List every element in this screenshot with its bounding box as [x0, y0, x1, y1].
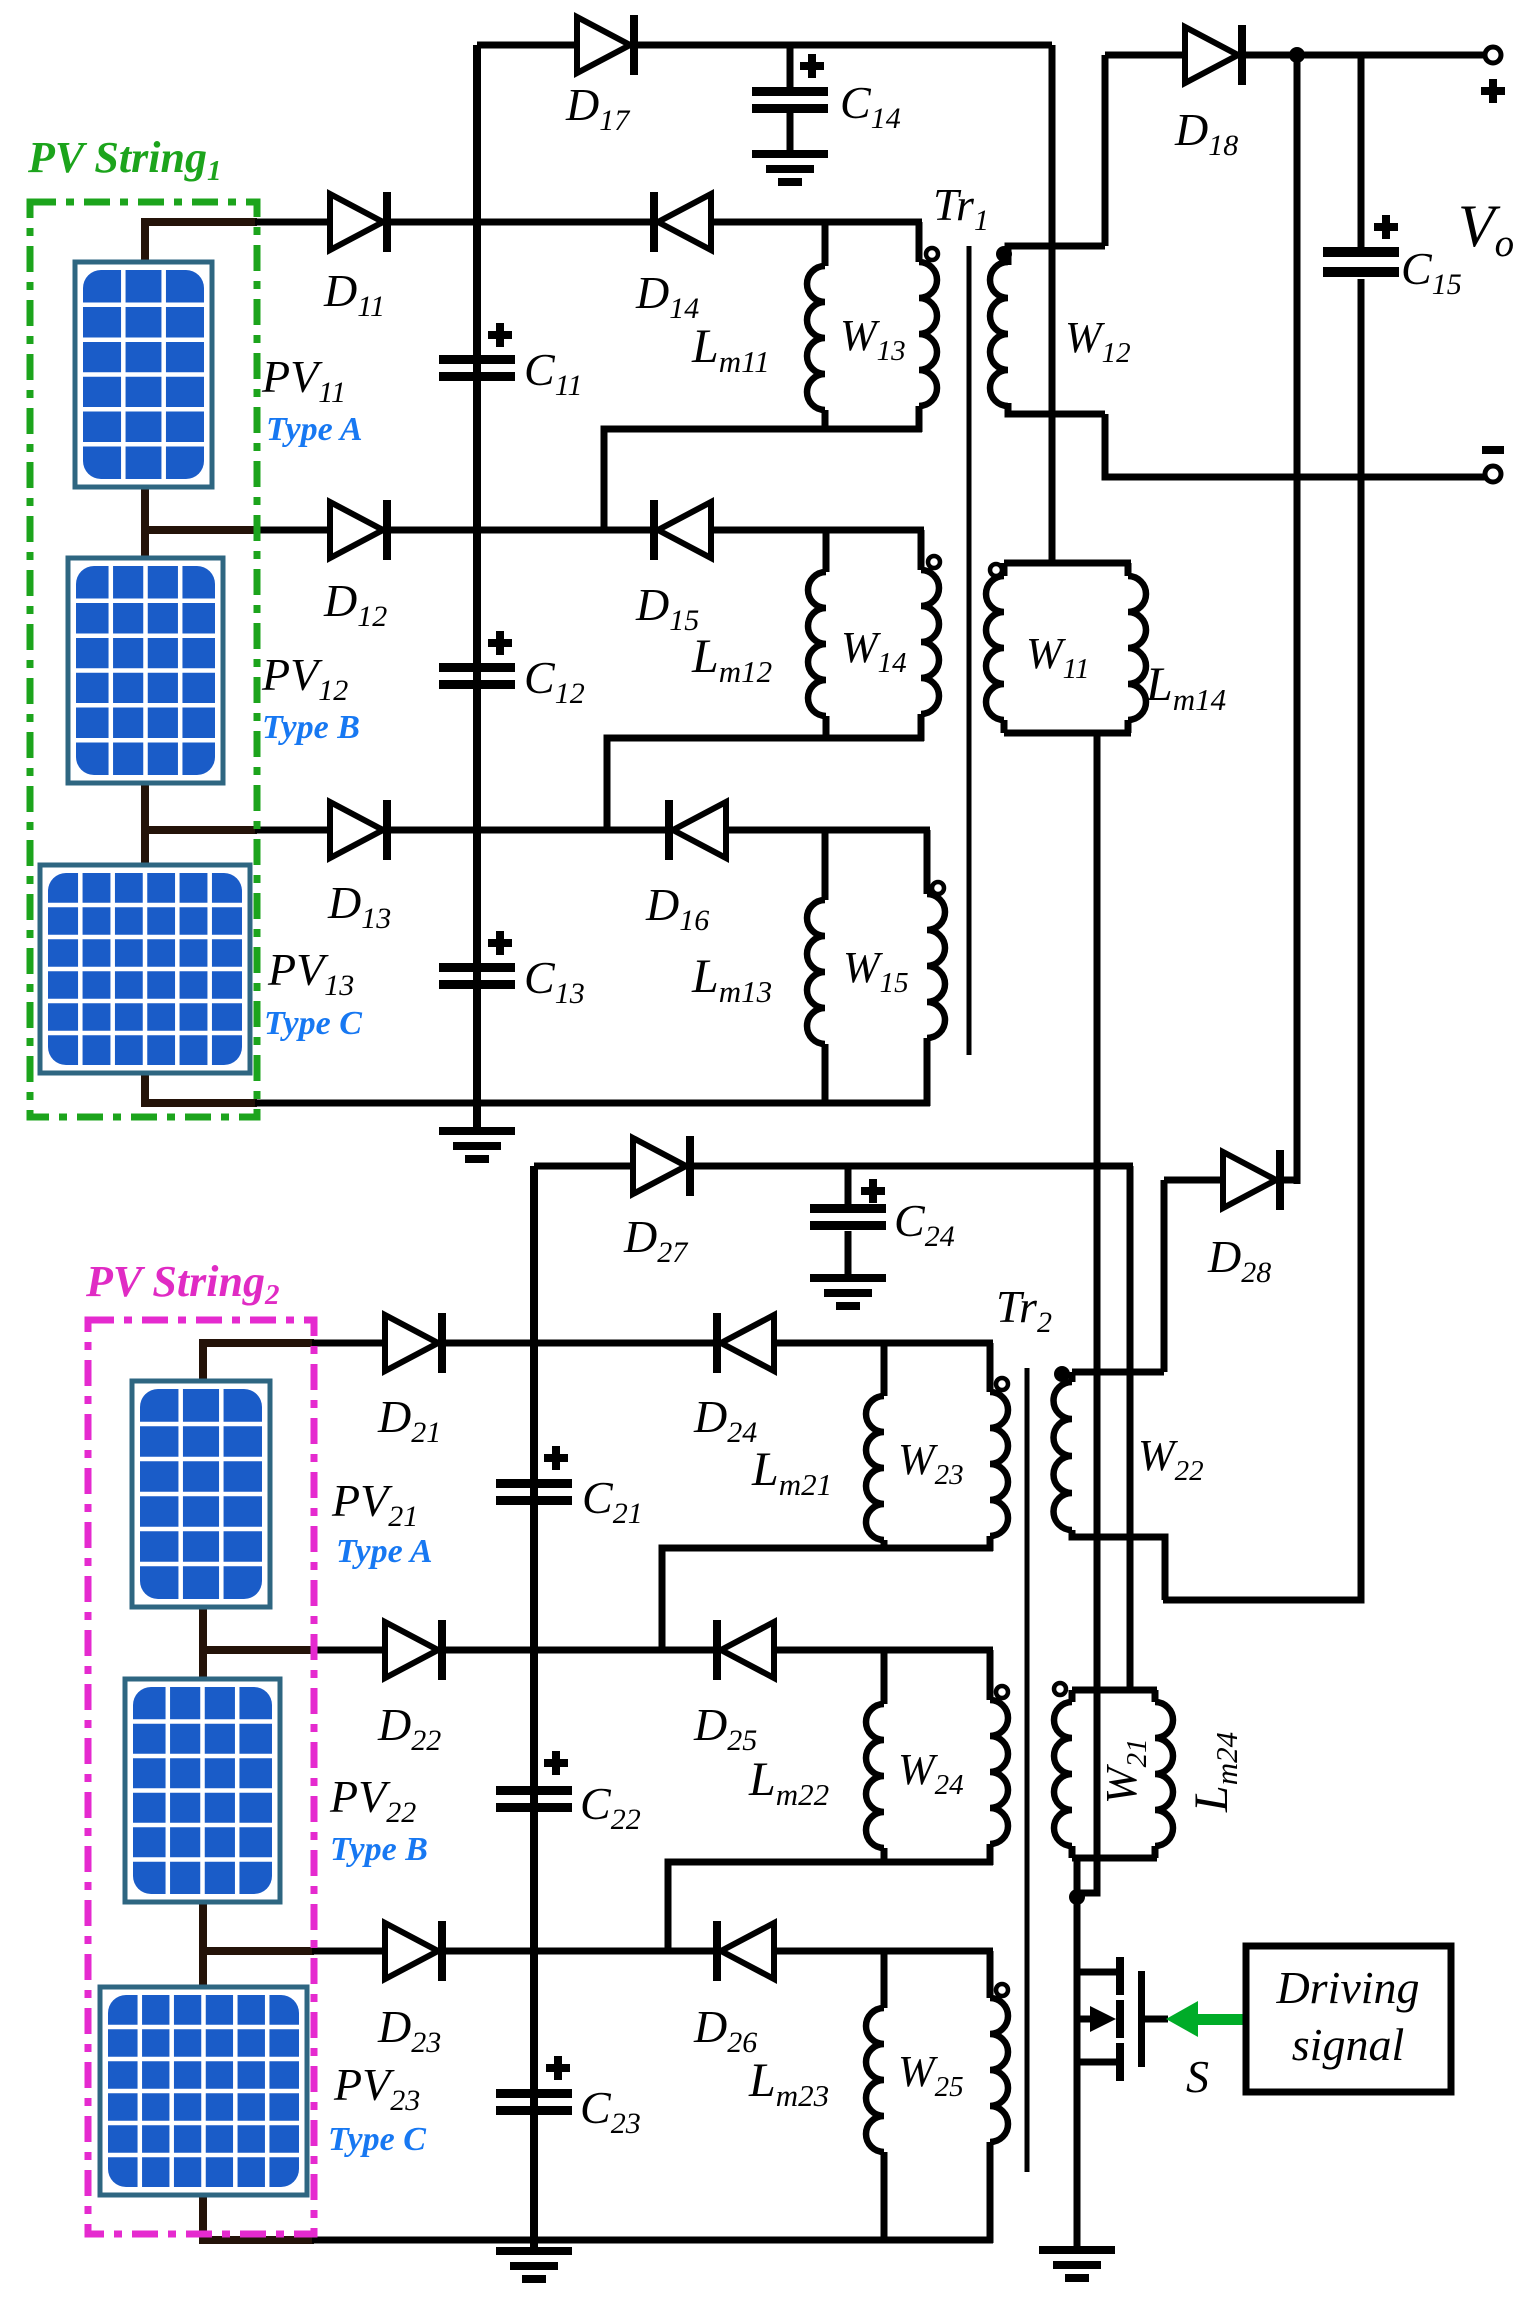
- wire W12 to output minus: [1105, 414, 1496, 477]
- svg-text:PV String1: PV String1: [27, 133, 221, 187]
- label D25: [693, 1699, 757, 1757]
- wire loop3 right stub: [924, 830, 931, 894]
- label D21: [377, 1391, 441, 1449]
- wire row2 D15 to W14: [708, 527, 924, 534]
- wire loop3 Lm13 bottom stub: [822, 1044, 829, 1106]
- label PV12 type: [262, 709, 360, 746]
- label W13: [840, 311, 906, 367]
- label PV String1: [27, 133, 221, 187]
- terminal output plus: [1485, 47, 1501, 63]
- dot W25 polarity: [996, 1984, 1008, 1996]
- svg-text:S: S: [1186, 2051, 1209, 2102]
- label D27: [623, 1211, 689, 1269]
- label C13 plus: [488, 931, 512, 955]
- dot W21 polarity: [1054, 1683, 1066, 1695]
- capacitor C15: [1323, 247, 1399, 277]
- label S: [1186, 2051, 1209, 2102]
- wire loop2 bottom: [607, 738, 924, 830]
- wire D18 anode drop: [1102, 55, 1109, 246]
- label C12 plus: [488, 631, 512, 655]
- core Tr2: [1025, 1368, 1030, 2172]
- label C11: [524, 344, 582, 402]
- capacitor C22: [496, 1786, 572, 1812]
- wire loop3 W15 bottom stub: [924, 1038, 931, 1106]
- solar panel PV13: [40, 865, 250, 1073]
- wire row1 D24 to W23: [771, 1340, 993, 1347]
- wire loop1 bottom: [604, 429, 922, 530]
- dot W12 polarity: [996, 246, 1012, 262]
- winding W25: [990, 1998, 1008, 2142]
- label W12: [1065, 313, 1131, 369]
- wire W21 return stub: [1074, 1858, 1081, 1897]
- diode D14: [650, 192, 711, 252]
- diode D11: [330, 192, 391, 252]
- wire W21 bottom stub: [1069, 1846, 1076, 1858]
- label C15: [1401, 243, 1462, 301]
- inductor Lm14: [1128, 576, 1146, 720]
- wire W11 left stub: [1001, 563, 1008, 576]
- label W15: [843, 943, 909, 999]
- diode D18: [1185, 25, 1246, 85]
- svg-text:Type A: Type A: [336, 1533, 433, 1570]
- wire W12 top lead: [1008, 246, 1105, 265]
- wire loop1s2 Lm21 bottom stub: [881, 1540, 888, 1551]
- wire PV22-PV23 link with row tap: [203, 1902, 387, 1987]
- label PV12: [261, 649, 348, 707]
- winding W24: [990, 1700, 1008, 1844]
- wire D17 row: [477, 42, 1052, 49]
- solar panel PV11: [75, 262, 212, 487]
- diode D16: [665, 800, 726, 860]
- wire loop2s2 left stub: [881, 1650, 888, 1704]
- wire D28 anode drop: [1161, 1180, 1168, 1372]
- wire switch left rail: [1074, 1897, 1081, 2250]
- capacitor C23: [496, 2089, 572, 2115]
- wire W12 bottom lead: [1008, 403, 1105, 414]
- label Tr1: [933, 179, 989, 237]
- label D24: [693, 1391, 757, 1449]
- wire row3 D26 to W25: [771, 1948, 993, 1955]
- wire W22 top stub: [1069, 1372, 1076, 1382]
- wire W11 loop bottom: [1004, 730, 1131, 737]
- wire Lm24 bottom stub: [1152, 1846, 1159, 1858]
- label D12: [323, 575, 387, 633]
- winding W22: [1054, 1382, 1073, 1530]
- label PV22: [329, 1771, 416, 1829]
- wire C14 rail to W11 top: [1049, 45, 1056, 566]
- node switch drain junction: [1069, 1889, 1085, 1905]
- label C21: [582, 1472, 643, 1530]
- diode D27: [633, 1136, 694, 1196]
- wire row1 D14 to W13: [708, 219, 922, 226]
- label PV13: [267, 944, 354, 1002]
- wire D28 row: [1164, 1177, 1297, 1184]
- wire loop1s2 right stub: [987, 1343, 994, 1392]
- label C22: [580, 1778, 641, 1836]
- capacitor C21: [496, 1479, 572, 1505]
- terminal output minus: [1485, 466, 1501, 482]
- inductor Lm24: [1155, 1702, 1173, 1846]
- winding W14: [921, 570, 939, 714]
- wire W22 bottom lead: [1072, 1530, 1165, 1600]
- label Vo: [1458, 193, 1514, 265]
- solar panel PV23: [100, 1987, 307, 2195]
- wire W11 bottom stub: [1001, 720, 1008, 733]
- capacitor C12: [439, 663, 515, 689]
- svg-text:PV String2: PV String2: [85, 1257, 279, 1311]
- wire gate lead: [1145, 2016, 1168, 2023]
- wire loop1 W13 bottom stub: [916, 406, 923, 432]
- label C12: [524, 652, 585, 710]
- label Lm21: [751, 1443, 832, 1502]
- dot W23 polarity: [996, 1378, 1008, 1390]
- label PV11: [261, 351, 346, 409]
- label D28: [1207, 1231, 1271, 1289]
- diode D15: [650, 500, 711, 560]
- label PV23: [333, 2059, 420, 2117]
- label output minus sign: [1482, 446, 1504, 454]
- winding W11: [986, 576, 1004, 720]
- wire row2 D12-D15: [386, 527, 652, 534]
- label C23: [580, 2082, 641, 2140]
- label C23 plus: [546, 2056, 570, 2080]
- label C11 plus: [488, 323, 512, 347]
- diode D13: [330, 800, 391, 860]
- label PV23 type: [328, 2121, 426, 2158]
- wire row2 D22-D25: [443, 1647, 715, 1654]
- label Tr2: [996, 1281, 1052, 1339]
- wire W21 loop bottom: [1072, 1855, 1157, 1862]
- label Lm12: [691, 630, 772, 689]
- wire output minus drop: [1163, 477, 1361, 1600]
- wire loop2 W14 bottom stub: [918, 714, 925, 741]
- wire Lm14 bottom stub: [1125, 720, 1132, 733]
- diode D22: [385, 1620, 446, 1680]
- ground switch source: [1039, 2246, 1115, 2282]
- label C21 plus: [544, 1446, 568, 1470]
- label C15 plus: [1374, 215, 1398, 239]
- label C22 plus: [544, 1751, 568, 1775]
- wire loop2s2 bottom: [668, 1862, 993, 1951]
- label D18: [1174, 104, 1238, 162]
- label PV21: [331, 1475, 418, 1533]
- transistor S channel bars: [1116, 1957, 1124, 2081]
- wire loop1 right stub: [916, 222, 923, 262]
- wire W11 loop top: [1004, 560, 1131, 567]
- wire PV23 bottom lead: [203, 2195, 537, 2240]
- svg-text:Type C: Type C: [264, 1005, 362, 1042]
- inductor Lm22: [866, 1704, 884, 1848]
- wire loop1 left stub: [822, 222, 829, 266]
- svg-text:signal: signal: [1292, 2019, 1404, 2070]
- label W21 rotated: [1097, 1738, 1153, 1804]
- wire row2 D25 to W24: [771, 1647, 993, 1654]
- svg-text:Type A: Type A: [266, 411, 363, 448]
- wire PV13 bottom lead: [145, 1073, 480, 1103]
- label Lm24 rotated: [1185, 1732, 1244, 1813]
- inductor Lm12: [808, 572, 826, 716]
- wire string2 ground row: [534, 2237, 993, 2244]
- wire loop1s2 W23 bottom stub: [987, 1536, 994, 1551]
- label W22: [1138, 1431, 1204, 1487]
- label C13: [524, 952, 585, 1010]
- wire PV21-PV22 link with row tap: [203, 1607, 387, 1679]
- label D11: [323, 265, 385, 323]
- boundary PV String2 box: [88, 1320, 314, 2234]
- wire loop1s2 left stub: [881, 1343, 888, 1396]
- transistor S body arrow: [1077, 2006, 1116, 2032]
- label C24: [894, 1195, 955, 1253]
- node bus2 / capacitor leg C21-C23: [530, 1166, 538, 2250]
- label Driving: [1275, 1962, 1419, 2013]
- wire output plus drop to D28: [1294, 55, 1301, 1184]
- wire C24 rail to W21 top: [1127, 1166, 1134, 1690]
- wire PV12-PV13 link with row-3 tap: [145, 783, 332, 865]
- label PV String2: [85, 1257, 279, 1311]
- wire loop3s2 right stub: [987, 1951, 994, 1998]
- label Lm14: [1145, 658, 1226, 717]
- wire loop1s2 bottom: [662, 1548, 993, 1650]
- dot W14 polarity: [928, 556, 940, 568]
- svg-text:Type B: Type B: [330, 1831, 428, 1868]
- label D16: [645, 879, 709, 937]
- wire row1 D21-D24: [443, 1340, 715, 1347]
- wire W21 loop top: [1072, 1687, 1157, 1694]
- svg-text:Type C: Type C: [328, 2121, 426, 2158]
- wire loop2s2 right stub: [987, 1650, 994, 1700]
- svg-text:Driving: Driving: [1275, 1962, 1419, 2013]
- wire loop2 left stub: [823, 530, 830, 572]
- dot W24 polarity: [996, 1686, 1008, 1698]
- label D13: [327, 877, 391, 935]
- label PV21 type: [336, 1533, 433, 1570]
- label D14: [635, 267, 699, 325]
- wire C15 bottom leg: [1358, 279, 1365, 477]
- label W11: [1026, 629, 1090, 685]
- label Lm11: [691, 320, 770, 379]
- wire row1 D11-D14: [386, 219, 652, 226]
- wire Lm14 right stub: [1125, 563, 1132, 576]
- label C14: [840, 77, 901, 135]
- label PV11 type: [266, 411, 363, 448]
- wire D18 row: [1105, 52, 1490, 59]
- winding W13: [919, 262, 937, 406]
- wire loop2 Lm12 bottom stub: [823, 716, 830, 741]
- diode D17: [577, 15, 638, 75]
- label output plus sign: [1481, 79, 1505, 103]
- label Lm23: [748, 2054, 829, 2113]
- wire switch drain: [1077, 1897, 1118, 1972]
- diode D26: [713, 1921, 774, 1981]
- dot W13 polarity: [926, 248, 938, 260]
- boundary PV String1 box: [30, 202, 257, 1117]
- inductor Lm13: [807, 900, 825, 1044]
- wire row3 D16 to W15: [723, 827, 930, 834]
- wire loop3s2 left stub: [881, 1951, 888, 2008]
- solar panel PV22: [125, 1679, 280, 1902]
- label C24 plus: [861, 1179, 885, 1203]
- driving signal arrow: [1166, 2001, 1246, 2037]
- dot W22 polarity: [1054, 1366, 1070, 1382]
- label W25: [898, 2047, 964, 2103]
- wire loop1 Lm11 bottom stub: [822, 410, 829, 432]
- wire Tr1 primary return: [1077, 733, 1097, 1897]
- label D23: [377, 2001, 441, 2059]
- diode D25: [713, 1620, 774, 1680]
- wire W21 left stub: [1069, 1690, 1076, 1702]
- wire PV11-PV12 link with row-2 tap: [145, 487, 332, 558]
- winding W15: [927, 894, 945, 1038]
- capacitor C13: [439, 963, 515, 989]
- dot W11 polarity: [990, 564, 1002, 576]
- capacitor C24 with ground: [810, 1166, 886, 1310]
- label PV22 type: [330, 1831, 428, 1868]
- core Tr1: [967, 246, 972, 1055]
- wire Lm24 right stub: [1152, 1690, 1159, 1702]
- box Driving signal: [1246, 1946, 1451, 2092]
- wire PV11 top lead: [145, 222, 332, 262]
- inductor Lm23: [866, 2008, 884, 2152]
- diode D24: [713, 1313, 774, 1373]
- label D15: [635, 579, 699, 637]
- wire C15 top leg: [1358, 55, 1365, 250]
- wire loop3 left stub: [822, 830, 829, 900]
- transistor S gate bar: [1138, 1971, 1145, 2067]
- node output plus junction: [1289, 47, 1305, 63]
- label Lm13: [691, 950, 772, 1009]
- label C14 plus: [800, 54, 824, 78]
- diode D21: [385, 1313, 446, 1373]
- wire PV21 top lead: [203, 1343, 387, 1381]
- label signal: [1292, 2019, 1404, 2070]
- label D26: [693, 2001, 757, 2059]
- wire loop3s2 W25 bottom stub: [987, 2142, 994, 2243]
- solar panel PV21: [132, 1381, 270, 1607]
- svg-text:Type B: Type B: [262, 709, 360, 746]
- ground string2 bus: [496, 2247, 572, 2283]
- diode D28: [1223, 1150, 1284, 1210]
- label W14: [841, 623, 907, 679]
- wire switch source: [1077, 2059, 1118, 2066]
- solar panel PV12: [68, 558, 223, 783]
- wire loop2s2 W24 bottom stub: [987, 1844, 994, 1865]
- wire loop3s2 Lm23 bottom stub: [881, 2152, 888, 2243]
- wire row3 D13-D16: [386, 827, 667, 834]
- diode D12: [330, 500, 391, 560]
- capacitor C11: [439, 355, 515, 381]
- wire row3 D23-D26: [443, 1948, 715, 1955]
- wire loop2s2 Lm22 bottom stub: [881, 1848, 888, 1865]
- wire loop2 right stub: [918, 530, 925, 570]
- label D17: [565, 79, 631, 137]
- dot W15 polarity: [932, 882, 944, 894]
- wire W22 top lead: [1072, 1369, 1164, 1376]
- inductor Lm21: [866, 1396, 884, 1540]
- label PV13 type: [264, 1005, 362, 1042]
- ground string1 bus: [439, 1127, 515, 1163]
- capacitor C14 with ground: [752, 45, 828, 186]
- label D22: [377, 1699, 441, 1757]
- inductor Lm11: [807, 266, 825, 410]
- node bus1 / capacitor leg C11-C13: [473, 45, 481, 1128]
- label W24: [898, 1745, 964, 1801]
- winding W23: [990, 1392, 1008, 1536]
- label W23: [898, 1435, 964, 1491]
- winding W21: [1054, 1702, 1072, 1846]
- wire D27 row: [534, 1163, 1133, 1170]
- label Lm22: [748, 1753, 829, 1812]
- winding W12: [990, 262, 1008, 406]
- wire string1 ground row: [477, 1100, 930, 1107]
- diode D23: [385, 1921, 446, 1981]
